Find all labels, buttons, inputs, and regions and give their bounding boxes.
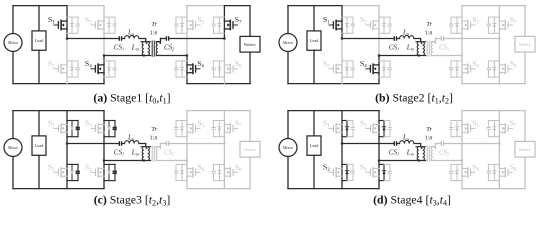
node leg D mid junction dot xyxy=(498,37,501,40)
transistor S8 (stage c) xyxy=(224,168,237,177)
transformer Tr core xyxy=(152,146,154,161)
wire primary top bar xyxy=(141,146,151,148)
wire secondary top bar xyxy=(431,39,435,42)
body diode of S2 xyxy=(345,67,348,70)
wire secondary top bar xyxy=(156,144,160,147)
wire CS2 to leg D mid node xyxy=(169,38,225,40)
snubber capacitor of S7 xyxy=(487,128,491,130)
snubber capacitor of S4 xyxy=(388,68,392,70)
node leg D mid junction dot xyxy=(498,142,501,145)
wire leg A lower (S2 branch) xyxy=(66,144,68,189)
wire leg C upper (S5 branch) xyxy=(461,111,463,161)
snubber loop of S4 (diode+capacitor) xyxy=(379,164,390,180)
capacitor CS2 xyxy=(441,36,443,41)
node A junction dot xyxy=(341,142,344,145)
wire top rail right (leg C to leg D) xyxy=(187,5,224,7)
transformer Tr secondary winding xyxy=(156,42,158,56)
transistor S6 (stage a) xyxy=(187,64,200,73)
inductor Lm (magnetizing) xyxy=(142,147,144,161)
transistor S3 (stage c) xyxy=(91,124,104,133)
body diode of S6 xyxy=(455,171,458,174)
transistor S5 (stage d) xyxy=(462,124,475,133)
svg-text:(d) Stage4 [t3,t4]: (d) Stage4 [t3,t4] xyxy=(373,193,451,208)
node B junction dot xyxy=(103,54,106,57)
transistor S6 (stage c) xyxy=(187,168,200,177)
capacitor CS2 xyxy=(441,141,443,146)
body diode of S5 xyxy=(455,127,458,130)
wire leg A upper (S1 branch) xyxy=(341,6,343,39)
transistor S8 (stage b) xyxy=(499,64,512,73)
wire leg B upper (S3 branch) xyxy=(103,111,105,161)
node A junction dot xyxy=(341,37,344,40)
body diode of S1 xyxy=(345,23,348,26)
wire CS1 to Ls xyxy=(122,143,125,145)
snubber loop of S1 (diode+capacitor) xyxy=(342,17,353,33)
transistor S1 (stage b) xyxy=(329,20,342,29)
snubber capacitor of S5 xyxy=(174,24,178,26)
wire top rail left (motor to leg A) xyxy=(13,5,67,7)
secondary polarity dot xyxy=(434,42,436,44)
snubber loop of S4 (diode+capacitor) xyxy=(104,164,115,180)
wire leg A upper (S1 branch) xyxy=(66,111,68,144)
secondary polarity dot xyxy=(159,147,161,149)
svg-text:Battery: Battery xyxy=(519,42,531,47)
wire top rail left (motor to leg A) xyxy=(288,5,342,7)
svg-text:(c) Stage3 [t2,t3]: (c) Stage3 [t2,t3] xyxy=(94,193,171,208)
wire leg C lower (S6 branch) xyxy=(461,56,463,84)
transistor S1 (stage c) xyxy=(54,124,67,133)
svg-text:Load: Load xyxy=(310,143,320,148)
primary polarity dot xyxy=(421,42,423,44)
wire primary top bar xyxy=(416,146,426,148)
wire Ls to transformer primary top xyxy=(139,39,146,42)
body diode of S2 xyxy=(70,171,73,174)
svg-text:Tr: Tr xyxy=(426,21,432,28)
transistor S5 (stage a) xyxy=(187,20,200,29)
wire secondary bottom to leg C mid node xyxy=(431,160,462,162)
battery block xyxy=(240,141,260,157)
snubber loop of S5 (diode+capacitor) xyxy=(176,121,187,137)
node A junction dot xyxy=(66,142,69,145)
snubber loop of S8 (diode+capacitor) xyxy=(213,164,224,180)
transformer Tr core xyxy=(427,41,429,56)
wire battery branch top xyxy=(524,6,526,37)
body diode of S7 xyxy=(493,127,496,130)
wire leg D upper (S7 branch) xyxy=(498,6,500,39)
node B junction dot xyxy=(378,54,381,57)
snubber loop of S2 (diode+capacitor) xyxy=(342,61,353,77)
wire battery branch top xyxy=(249,6,251,37)
transistor S4 (stage c) xyxy=(91,168,104,177)
wire top rail right (leg D to battery) xyxy=(499,5,525,7)
wire CS1 to Ls xyxy=(122,38,125,40)
body diode of S2 xyxy=(345,171,348,174)
node leg D mid junction dot xyxy=(223,142,226,145)
wire leg C upper (S5 branch) xyxy=(186,111,188,161)
wire node A to CS1 xyxy=(342,38,394,40)
body diode of S1 xyxy=(70,23,73,26)
svg-text:Load: Load xyxy=(310,38,320,43)
snubber capacitor of S4 xyxy=(113,68,117,70)
wire bottom rail right xyxy=(187,83,250,85)
snubber loop of S7 (diode+capacitor) xyxy=(213,17,224,33)
wire motor branch x=13 (stage b) xyxy=(287,6,289,84)
wire leg B lower (S4 branch) xyxy=(378,161,380,189)
transistor S3 (stage b) xyxy=(366,20,379,29)
snubber capacitor of S3 xyxy=(113,128,117,130)
body diode of S6 xyxy=(180,171,183,174)
wire leg B mid to primary bottom bar xyxy=(379,160,426,162)
wire Ls to transformer primary top xyxy=(414,39,421,42)
wire leg C upper (S5 branch) xyxy=(186,6,188,56)
body diode of S1 xyxy=(345,127,348,130)
wire leg D lower (S8 branch) xyxy=(498,39,500,84)
load block xyxy=(32,31,46,50)
wire leg A lower (S2 branch) xyxy=(66,39,68,84)
svg-text:1:n: 1:n xyxy=(150,136,158,142)
wire battery branch bottom xyxy=(249,157,251,189)
wire bottom rail left xyxy=(13,83,104,85)
wire leg B upper (S3 branch) xyxy=(103,6,105,56)
body diode of S8 xyxy=(218,67,221,70)
inductor Ls xyxy=(400,140,415,143)
wire CS2 to leg D mid node xyxy=(444,143,500,145)
wire leg A lower (S2 branch) xyxy=(341,144,343,189)
snubber loop of S8 (diode+capacitor) xyxy=(488,61,499,77)
capacitor CS1 xyxy=(119,141,121,146)
node primary bottom junction dot xyxy=(418,54,420,56)
capacitor CS1 xyxy=(119,36,121,41)
snubber capacitor of S3 xyxy=(113,24,117,26)
transistor S7 (stage b) xyxy=(499,20,512,29)
snubber loop of S2 (diode+capacitor) xyxy=(342,164,353,180)
wire battery branch bottom xyxy=(524,157,526,189)
wire leg D upper (S7 branch) xyxy=(223,111,225,144)
transistor S8 (stage d) xyxy=(499,168,512,177)
wire secondary bottom to leg C mid node xyxy=(156,55,187,57)
wire bottom rail left xyxy=(288,188,379,190)
transistor S2 (stage b) xyxy=(329,64,342,73)
snubber loop of S1 (diode+capacitor) xyxy=(67,17,78,33)
node primary bottom junction dot xyxy=(143,54,145,56)
body diode of S5 xyxy=(180,23,183,26)
svg-text:Tr: Tr xyxy=(426,126,432,133)
secondary polarity dot xyxy=(159,42,161,44)
wire top rail left (leg A to leg B) xyxy=(67,5,104,7)
snubber capacitor of S7 xyxy=(212,24,216,26)
body diode of S3 xyxy=(107,23,110,26)
transistor S1 (stage a) xyxy=(54,20,67,29)
transistor S7 (stage a) xyxy=(224,20,237,29)
body diode of S4 xyxy=(107,171,110,174)
wire leg A upper (S1 branch) xyxy=(341,111,343,144)
svg-text:Motor: Motor xyxy=(283,145,294,150)
wire CS2 to leg D mid node xyxy=(169,143,225,145)
battery block xyxy=(515,36,535,52)
transformer Tr primary winding xyxy=(148,42,150,56)
wire load branch x=39 xyxy=(313,111,315,189)
body diode of S2 xyxy=(70,67,73,70)
transistor S4 (stage b) xyxy=(366,64,379,73)
wire top rail right (leg C to leg D) xyxy=(462,5,499,7)
wire secondary bottom to leg C mid node xyxy=(156,160,187,162)
motor M xyxy=(4,139,22,157)
node leg C mid junction dot xyxy=(186,54,189,57)
snubber capacitor of S3 xyxy=(388,24,392,26)
snubber capacitor of S6 xyxy=(449,171,453,173)
wire CS1 to Ls xyxy=(397,143,400,145)
transformer Tr primary winding xyxy=(423,147,425,161)
snubber capacitor of S2 xyxy=(76,171,80,173)
snubber capacitor of S8 xyxy=(487,68,491,70)
snubber loop of S6 (diode+capacitor) xyxy=(176,61,187,77)
wire top rail right (leg C to leg D) xyxy=(187,110,224,112)
wire top rail right (leg D to battery) xyxy=(224,110,250,112)
node A junction dot xyxy=(66,37,69,40)
snubber capacitor of S4 xyxy=(388,171,392,173)
primary polarity dot xyxy=(146,42,148,44)
snubber loop of S5 (diode+capacitor) xyxy=(451,17,462,33)
snubber loop of S5 (diode+capacitor) xyxy=(451,121,462,137)
wire node A to CS1 xyxy=(67,38,119,40)
body diode of S3 xyxy=(107,127,110,130)
body diode of S7 xyxy=(218,23,221,26)
wire motor branch x=13 (stage a) xyxy=(12,6,14,84)
wire bottom rail left xyxy=(13,188,104,190)
wire bottom rail right xyxy=(462,83,525,85)
snubber capacitor of S5 xyxy=(174,128,178,130)
snubber loop of S2 (diode+capacitor) xyxy=(67,61,78,77)
snubber loop of S8 (diode+capacitor) xyxy=(488,164,499,180)
transformer Tr secondary winding xyxy=(431,147,433,161)
wire leg C lower (S6 branch) xyxy=(186,56,188,84)
capacitor CS2 xyxy=(166,141,168,146)
wire leg B mid to primary bottom bar xyxy=(104,160,151,162)
wire leg A upper (S1 branch) xyxy=(66,6,68,39)
battery block xyxy=(515,141,535,157)
snubber loop of S6 (diode+capacitor) xyxy=(451,61,462,77)
wire leg D upper (S7 branch) xyxy=(498,111,500,144)
wire top rail left (leg A to leg B) xyxy=(67,110,104,112)
node leg C mid junction dot xyxy=(461,54,464,57)
wire leg B upper (S3 branch) xyxy=(378,111,380,161)
wire primary top bar xyxy=(141,41,151,43)
body diode of S5 xyxy=(455,23,458,26)
body diode of S8 xyxy=(218,171,221,174)
wire bottom rail left xyxy=(288,83,379,85)
wire Ls to transformer primary top xyxy=(414,144,421,147)
transistor S6 (stage d) xyxy=(462,168,475,177)
wire leg D lower (S8 branch) xyxy=(498,144,500,189)
wire Ls to transformer primary top xyxy=(139,144,146,147)
wire secondary top to CS2 xyxy=(436,143,442,145)
svg-text:Motor: Motor xyxy=(8,145,19,150)
capacitor CS2 xyxy=(166,36,168,41)
transistor S3 (stage a) xyxy=(91,20,104,29)
wire motor branch x=13 (stage c) xyxy=(12,111,14,189)
transistor S1 (stage d) xyxy=(329,124,342,133)
capacitor CS1 xyxy=(394,36,396,41)
snubber capacitor of S4 xyxy=(113,171,117,173)
transistor S5 (stage c) xyxy=(187,124,200,133)
snubber loop of S4 (diode+capacitor) xyxy=(379,61,390,77)
transistor S8 (stage a) xyxy=(224,64,237,73)
body diode of S7 xyxy=(218,127,221,130)
snubber loop of S5 (diode+capacitor) xyxy=(176,17,187,33)
motor M xyxy=(4,34,22,52)
transistor S7 (stage c) xyxy=(224,124,237,133)
snubber loop of S7 (diode+capacitor) xyxy=(488,17,499,33)
snubber capacitor of S2 xyxy=(351,171,355,173)
snubber capacitor of S8 xyxy=(212,171,216,173)
inductor Lm (magnetizing) xyxy=(417,147,419,161)
svg-text:Battery: Battery xyxy=(519,147,531,152)
body diode of S5 xyxy=(180,127,183,130)
wire secondary bottom to leg C mid node xyxy=(431,55,462,57)
primary polarity dot xyxy=(421,147,423,149)
inductor Lm (magnetizing) xyxy=(417,42,419,56)
wire top rail left (motor to leg A) xyxy=(13,110,67,112)
snubber capacitor of S2 xyxy=(76,68,80,70)
transformer Tr core xyxy=(427,146,429,161)
wire secondary top to CS2 xyxy=(161,38,167,40)
wire battery branch top xyxy=(249,111,251,142)
wire load branch x=39 xyxy=(313,6,315,84)
wire leg D lower (S8 branch) xyxy=(223,144,225,189)
snubber loop of S3 (diode+capacitor) xyxy=(379,121,390,137)
wire leg C upper (S5 branch) xyxy=(461,6,463,56)
wire leg B lower (S4 branch) xyxy=(378,56,380,84)
wire load branch x=39 xyxy=(38,111,40,189)
wire top rail right (leg C to leg D) xyxy=(462,110,499,112)
wire secondary top bar xyxy=(156,39,160,42)
svg-text:Tr: Tr xyxy=(151,126,157,133)
wire leg B lower (S4 branch) xyxy=(103,56,105,84)
transistor S2 (stage a) xyxy=(54,64,67,73)
wire primary top bar xyxy=(416,41,426,43)
body diode of S1 xyxy=(70,127,73,130)
snubber loop of S1 (diode+capacitor) xyxy=(67,121,78,137)
wire CS2 to leg D mid node xyxy=(444,38,500,40)
body diode of S7 xyxy=(493,23,496,26)
body diode of S6 xyxy=(455,67,458,70)
transistor S4 (stage a) xyxy=(91,64,104,73)
body diode of S4 xyxy=(107,67,110,70)
node primary bottom junction dot xyxy=(418,159,420,161)
transformer Tr primary winding xyxy=(148,147,150,161)
snubber loop of S6 (diode+capacitor) xyxy=(451,164,462,180)
wire leg B lower (S4 branch) xyxy=(103,161,105,189)
snubber loop of S4 (diode+capacitor) xyxy=(104,61,115,77)
transformer Tr secondary winding xyxy=(156,147,158,161)
svg-text:Load: Load xyxy=(35,38,45,43)
transistor S6 (stage b) xyxy=(462,64,475,73)
snubber capacitor of S1 xyxy=(351,24,355,26)
snubber loop of S3 (diode+capacitor) xyxy=(379,17,390,33)
snubber capacitor of S1 xyxy=(351,128,355,130)
motor M xyxy=(279,34,297,52)
wire leg D lower (S8 branch) xyxy=(223,39,225,84)
transistor S7 (stage d) xyxy=(499,124,512,133)
inductor Ls xyxy=(400,35,415,38)
svg-text:Battery: Battery xyxy=(244,147,256,152)
transistor S5 (stage b) xyxy=(462,20,475,29)
secondary polarity dot xyxy=(434,147,436,149)
wire node A to CS1 xyxy=(342,143,394,145)
capacitor CS1 xyxy=(394,141,396,146)
wire top rail left (leg A to leg B) xyxy=(342,110,379,112)
body diode of S3 xyxy=(382,127,385,130)
load block xyxy=(307,136,321,155)
snubber capacitor of S8 xyxy=(212,68,216,70)
wire leg A lower (S2 branch) xyxy=(341,39,343,84)
svg-text:Tr: Tr xyxy=(151,21,157,28)
node B junction dot xyxy=(378,159,381,162)
load block xyxy=(307,31,321,50)
primary polarity dot xyxy=(146,147,148,149)
node B junction dot xyxy=(103,159,106,162)
transistor S2 (stage c) xyxy=(54,168,67,177)
wire leg B mid to primary bottom bar xyxy=(104,55,151,57)
snubber loop of S3 (diode+capacitor) xyxy=(104,17,115,33)
svg-text:Motor: Motor xyxy=(283,40,294,45)
wire bottom rail right xyxy=(187,188,250,190)
svg-text:1:n: 1:n xyxy=(150,31,158,37)
wire leg B upper (S3 branch) xyxy=(378,6,380,56)
svg-text:(b) Stage2 [t1,t2]: (b) Stage2 [t1,t2] xyxy=(375,90,453,105)
wire top rail right (leg D to battery) xyxy=(224,5,250,7)
wire secondary top bar xyxy=(431,144,435,147)
transistor S3 (stage d) xyxy=(366,124,379,133)
svg-text:Battery: Battery xyxy=(244,42,256,47)
snubber loop of S8 (diode+capacitor) xyxy=(213,61,224,77)
transistor S2 (stage d) xyxy=(329,168,342,177)
snubber capacitor of S5 xyxy=(449,24,453,26)
inductor Ls xyxy=(125,140,140,143)
wire leg C lower (S6 branch) xyxy=(461,161,463,189)
wire top rail right (leg D to battery) xyxy=(499,110,525,112)
snubber loop of S7 (diode+capacitor) xyxy=(213,121,224,137)
motor M xyxy=(279,139,297,157)
wire bottom rail right xyxy=(462,188,525,190)
wire top rail left (motor to leg A) xyxy=(288,110,342,112)
snubber capacitor of S6 xyxy=(449,68,453,70)
body diode of S8 xyxy=(493,171,496,174)
wire leg D upper (S7 branch) xyxy=(223,6,225,39)
wire battery branch bottom xyxy=(249,52,251,84)
node primary bottom junction dot xyxy=(143,159,145,161)
load block xyxy=(32,136,46,155)
node leg D mid junction dot xyxy=(223,37,226,40)
svg-text:1:n: 1:n xyxy=(425,31,433,37)
inductor Lm (magnetizing) xyxy=(142,42,144,56)
snubber loop of S3 (diode+capacitor) xyxy=(104,121,115,137)
wire load branch x=39 xyxy=(38,6,40,84)
wire leg B mid to primary bottom bar xyxy=(379,55,426,57)
snubber capacitor of S6 xyxy=(174,171,178,173)
body diode of S3 xyxy=(382,23,385,26)
snubber capacitor of S2 xyxy=(351,68,355,70)
battery block xyxy=(240,36,260,52)
wire motor branch x=13 (stage d) xyxy=(287,111,289,189)
svg-text:(a) Stage1 [t0,t1]: (a) Stage1 [t0,t1] xyxy=(93,90,170,105)
transistor S4 (stage d) xyxy=(366,168,379,177)
snubber capacitor of S7 xyxy=(487,24,491,26)
svg-text:1:n: 1:n xyxy=(425,136,433,142)
snubber capacitor of S8 xyxy=(487,171,491,173)
snubber loop of S1 (diode+capacitor) xyxy=(342,121,353,137)
snubber capacitor of S1 xyxy=(76,128,80,130)
